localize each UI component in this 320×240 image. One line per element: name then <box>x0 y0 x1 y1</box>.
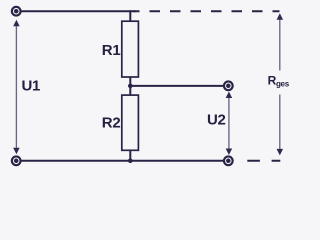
svg-text:U2: U2 <box>207 111 226 128</box>
resistor R1 <box>122 21 139 77</box>
Rges bracket arrow (double headed, broken by label) <box>277 13 284 155</box>
wire: drop from top rail into R1 <box>129 10 131 21</box>
terminal top-left <box>12 7 21 16</box>
wire: bottom rail dashed continuation <box>247 160 280 162</box>
wire: R2 bottom to bottom rail <box>129 150 131 161</box>
svg-text:R2: R2 <box>102 114 121 131</box>
U1 voltage arrow (double headed) <box>13 20 20 154</box>
wire: top rail dashed continuation to Rges arrow <box>134 10 280 12</box>
wire: top rail solid from terminal to R1 top corner <box>21 10 135 12</box>
wire: bottom rail solid <box>21 160 223 162</box>
svg-text:R1: R1 <box>102 42 121 59</box>
terminal bottom-right <box>224 156 233 165</box>
U2 voltage arrow (double headed) <box>226 92 233 156</box>
resistor R2 <box>122 95 139 150</box>
node: junction on bottom rail <box>128 159 133 164</box>
node: junction between R1 and R2 <box>128 84 133 89</box>
wire: R1 bottom to R2 top <box>129 77 131 95</box>
wire: mid tap to right terminal <box>130 85 223 87</box>
svg-text:U1: U1 <box>22 77 41 94</box>
terminal mid-right (U2 top) <box>224 81 233 90</box>
terminal bottom-left <box>12 156 21 165</box>
